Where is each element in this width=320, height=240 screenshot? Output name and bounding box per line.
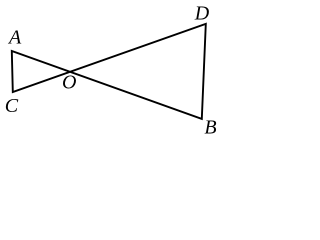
svg-text:D: D — [194, 2, 210, 24]
wire outline ACDB (segments AC, CD, DB, BA) — [12, 24, 206, 119]
svg-text:B: B — [204, 116, 216, 138]
svg-text:A: A — [7, 26, 22, 48]
svg-text:C: C — [5, 95, 19, 117]
svg-text:O: O — [62, 72, 76, 94]
